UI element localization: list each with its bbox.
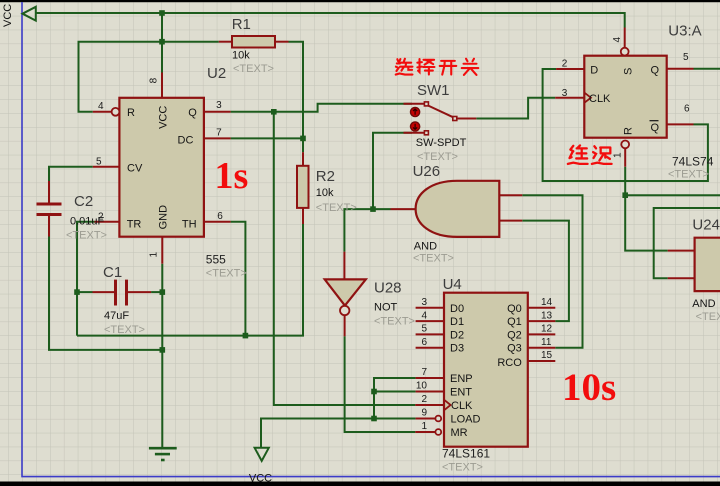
svg-text:CV: CV — [127, 163, 143, 175]
bottom black bar — [0, 482, 720, 486]
counter U4 74LS161 body — [444, 293, 528, 447]
U4 pin MR stub — [415, 431, 435, 433]
VCC power arrow top-left — [23, 7, 36, 21]
wire VCC rail drop to 555 pin8 — [161, 13, 163, 73]
wire switch bottom throw down to AND output node — [373, 133, 412, 209]
U3 CLK clock mark — [584, 93, 591, 103]
svg-text:13: 13 — [541, 310, 553, 321]
node AND output junction — [370, 206, 376, 212]
svg-text:3: 3 — [216, 100, 222, 111]
U3 R bubble — [621, 141, 629, 149]
svg-text:<TEXT>: <TEXT> — [316, 202, 357, 214]
U3 R stub — [624, 148, 626, 166]
svg-text:R2: R2 — [316, 168, 335, 185]
svg-text:5: 5 — [421, 324, 427, 335]
svg-text:D3: D3 — [450, 343, 464, 355]
U3 pin Q stub — [666, 68, 694, 70]
U24 lower input stub — [668, 277, 695, 279]
U26 lower input stub — [499, 220, 522, 222]
C1 right lead — [128, 291, 151, 293]
svg-text:U3:A: U3:A — [668, 23, 701, 40]
C2 top lead — [48, 181, 50, 203]
svg-text:SW-SPDT: SW-SPDT — [416, 137, 467, 149]
flip-flop U3:A 74LS74 body — [584, 56, 666, 138]
svg-text:Q: Q — [651, 65, 660, 77]
wire 555 TH down to TR node — [231, 222, 246, 336]
svg-text:5: 5 — [683, 52, 689, 63]
svg-text:2: 2 — [562, 59, 568, 70]
U4 pin Q2 stub — [528, 333, 556, 335]
wire R net out to right edge — [625, 194, 720, 196]
svg-text:Q1: Q1 — [507, 316, 522, 328]
annotation 延迟 (drawn strokes) — [568, 145, 612, 163]
U3 pin Qbar stub — [666, 123, 694, 125]
svg-text:<TEXT>: <TEXT> — [66, 230, 107, 242]
svg-text:3: 3 — [562, 88, 568, 99]
U4 pin ENT stub — [416, 391, 444, 393]
555 pin1 stub — [161, 237, 163, 264]
U4 pin CLK stub — [415, 404, 444, 406]
svg-text:U2: U2 — [207, 65, 226, 82]
555 pin4 inversion bubble — [112, 108, 120, 116]
svg-text:RCO: RCO — [497, 357, 522, 369]
wire 555 DC to R1/R2 node — [231, 137, 303, 139]
U3 S stub — [624, 28, 626, 48]
svg-text:1: 1 — [613, 152, 624, 158]
svg-text:<TEXT>: <TEXT> — [442, 462, 483, 474]
SW1 lower throw stub — [404, 132, 425, 134]
resistor R2 — [297, 166, 309, 208]
R1 right lead — [275, 41, 289, 43]
svg-text:C2: C2 — [74, 193, 93, 210]
U4 pin D1 stub — [416, 320, 444, 322]
node top rail junction — [159, 10, 165, 16]
svg-text:ENP: ENP — [450, 373, 473, 385]
svg-text:ENT: ENT — [450, 387, 472, 399]
svg-text:CLK: CLK — [589, 93, 611, 105]
svg-text:SW1: SW1 — [417, 82, 450, 99]
svg-text:2: 2 — [421, 394, 427, 405]
capacitor C1 — [116, 280, 127, 306]
R2 bottom lead — [302, 208, 304, 224]
svg-text:555: 555 — [206, 253, 226, 267]
R1 left lead — [219, 41, 232, 43]
wire 555 TR left and down to C1 — [77, 222, 95, 336]
annotation 选择开关 (drawn strokes) — [396, 59, 479, 75]
U4 CLK clock mark — [444, 400, 451, 411]
wire Q1 to U26 lower input — [522, 221, 569, 322]
wire R1 right to R2 top via junction — [289, 42, 304, 153]
svg-text:VCC: VCC — [158, 106, 170, 129]
svg-text:15: 15 — [541, 350, 553, 361]
svg-text:<TEXT>: <TEXT> — [374, 316, 415, 328]
node C2/ground junction — [160, 347, 166, 353]
svg-text:<TEXT>: <TEXT> — [413, 253, 454, 265]
U4 pin D3 stub — [416, 347, 444, 349]
U28 input stub — [343, 252, 345, 280]
555 pin5 stub — [93, 166, 120, 168]
wire C1 right stub — [151, 291, 162, 293]
svg-text:4: 4 — [612, 37, 623, 43]
wire U3 D to Q-bar feedback — [543, 69, 708, 181]
wire Q3 to U26 upper input — [522, 195, 582, 347]
svg-text:3: 3 — [421, 297, 427, 308]
U4 pin Q3 stub — [528, 347, 556, 349]
svg-text:C1: C1 — [103, 264, 122, 281]
svg-text:10k: 10k — [232, 50, 250, 62]
U28 output stub — [344, 316, 346, 337]
svg-text:7: 7 — [216, 128, 222, 139]
U4 pin ENP stub — [416, 377, 444, 379]
svg-text:8: 8 — [149, 77, 160, 83]
svg-text:Q0: Q0 — [507, 303, 522, 315]
svg-text:<TEXT>: <TEXT> — [696, 311, 720, 323]
wire U3 Q out to right edge — [694, 68, 720, 70]
svg-text:74LS161: 74LS161 — [442, 447, 490, 461]
switch SW1 actuator circles — [411, 107, 420, 116]
svg-text:10: 10 — [416, 381, 428, 392]
svg-text:Q2: Q2 — [507, 329, 522, 341]
capacitor C2 — [37, 204, 62, 215]
U3 S bubble — [621, 48, 629, 56]
svg-text:D2: D2 — [450, 329, 464, 341]
svg-text:6: 6 — [684, 104, 690, 115]
svg-text:14: 14 — [541, 297, 553, 308]
svg-text:MR: MR — [451, 427, 468, 439]
svg-text:TR: TR — [127, 219, 142, 231]
555 pin8 stub — [161, 73, 163, 98]
and-gate U24 (clipped at right edge) — [695, 238, 720, 291]
svg-text:S: S — [623, 68, 635, 75]
svg-text:6: 6 — [421, 337, 427, 348]
svg-text:1: 1 — [421, 421, 427, 432]
C1 left lead — [93, 291, 115, 293]
U4 MR bubble — [435, 429, 441, 435]
U3 pin D stub — [556, 68, 584, 70]
wire C2 bottom to ground net — [49, 237, 163, 350]
U26 output stub — [391, 208, 416, 210]
svg-text:9: 9 — [421, 408, 427, 419]
svg-text:D0: D0 — [450, 303, 464, 315]
wire U24 lower input out to right edge — [654, 208, 720, 278]
wire ENP/ENT/LOAD tie — [374, 378, 416, 419]
node TH junction — [243, 333, 249, 339]
VCC power arrow bottom (points down) — [255, 448, 269, 461]
SW1 pole stub — [457, 118, 477, 120]
node C1 left junction — [74, 289, 80, 295]
wire C1 left stub — [77, 291, 93, 293]
wire 555 CV to C2 — [49, 167, 93, 181]
svg-text:5: 5 — [96, 157, 102, 168]
node DC/R1/R2 junction — [300, 136, 306, 142]
svg-text:GND: GND — [158, 205, 170, 230]
node LOAD junction — [371, 416, 377, 422]
svg-text:VCC: VCC — [2, 4, 14, 27]
svg-text:11: 11 — [541, 337, 552, 348]
wire NOT output down to U4 MR — [345, 336, 416, 432]
node U3 R junction — [622, 192, 628, 198]
wire AND output to NOT input — [344, 209, 390, 252]
svg-text:<TEXT>: <TEXT> — [104, 324, 145, 336]
svg-text:D1: D1 — [450, 316, 464, 328]
node Q junction — [271, 109, 277, 115]
svg-text:4: 4 — [98, 101, 104, 112]
svg-text:Q3: Q3 — [507, 343, 522, 355]
U24 upper input stub — [668, 250, 695, 252]
ground — [149, 448, 177, 460]
svg-text:Q: Q — [651, 122, 660, 134]
svg-text:6: 6 — [217, 211, 223, 222]
555 pin7 stub — [204, 137, 231, 139]
svg-text:7: 7 — [421, 367, 427, 378]
svg-text:4: 4 — [421, 310, 427, 321]
svg-text:2: 2 — [98, 212, 104, 223]
node C1 right junction — [160, 289, 166, 295]
svg-text:10s: 10s — [562, 366, 616, 409]
U4 pin RCO stub — [528, 360, 556, 362]
switch SW1 terminal squares — [424, 102, 456, 135]
wire ENT stub — [374, 391, 416, 393]
op-amp U2 555 body — [119, 98, 203, 237]
U28 output bubble — [340, 306, 349, 315]
U3 pin CLK stub — [555, 97, 584, 99]
555 pin6 stub — [204, 221, 231, 223]
svg-text:LOAD: LOAD — [451, 414, 481, 426]
svg-text:AND: AND — [692, 298, 715, 310]
switch SW1 blade — [428, 106, 453, 118]
svg-text:TH: TH — [182, 219, 197, 231]
svg-text:1s: 1s — [215, 155, 249, 197]
svg-text:VCC: VCC — [249, 473, 272, 485]
svg-text:10k: 10k — [316, 187, 334, 199]
wire switch pole to U3 CLK — [476, 98, 555, 119]
svg-text:U26: U26 — [413, 163, 441, 180]
svg-text:CLK: CLK — [451, 400, 473, 412]
R2 top lead — [302, 152, 304, 166]
wire VCC top rail to U3 S pin — [36, 13, 625, 28]
svg-text:R1: R1 — [232, 16, 251, 33]
svg-text:D: D — [590, 65, 598, 77]
SW1 upper throw stub — [404, 103, 425, 105]
svg-text:74LS74: 74LS74 — [672, 155, 714, 169]
555 pin3 stub — [204, 111, 231, 113]
wire 555 GND down to ground — [161, 264, 163, 448]
node ENP/ENT junction — [371, 389, 377, 395]
node rail41 junction — [159, 39, 165, 45]
svg-text:<TEXT>: <TEXT> — [417, 151, 458, 163]
U4 LOAD bubble — [435, 416, 441, 422]
svg-text:R: R — [623, 127, 635, 135]
not-gate U28 (points down) — [325, 279, 366, 305]
and-gate U26 (mirrored, inputs right) — [416, 181, 500, 237]
svg-text:R: R — [127, 107, 135, 119]
svg-text:12: 12 — [541, 324, 553, 335]
U4 pin Q0 stub — [528, 307, 556, 309]
svg-text:U4: U4 — [443, 276, 462, 293]
C2 bottom lead — [48, 216, 50, 237]
wire U3 R net down and right off edge — [625, 167, 668, 251]
svg-text:U24: U24 — [692, 217, 720, 234]
svg-text:47uF: 47uF — [104, 310, 129, 322]
U4 pin Q1 stub — [528, 320, 556, 322]
svg-text:Q: Q — [188, 107, 197, 119]
svg-text:<TEXT>: <TEXT> — [206, 268, 247, 280]
top black bar — [0, 0, 720, 2]
U4 pin D2 stub — [416, 333, 444, 335]
svg-text:AND: AND — [414, 241, 437, 253]
svg-text:DC: DC — [178, 135, 194, 147]
svg-text:1: 1 — [149, 252, 160, 258]
555 pin2 stub — [95, 221, 120, 223]
U4 pin D0 stub — [416, 307, 444, 309]
resistor R1 — [232, 36, 275, 48]
wire 555 Q to switch top throw — [231, 104, 412, 112]
svg-text:<TEXT>: <TEXT> — [668, 169, 709, 181]
svg-text:<TEXT>: <TEXT> — [233, 63, 274, 75]
wire 555 Q down to U4 CLK — [274, 112, 416, 405]
wire TR node horizontal to R2 bottom — [77, 224, 303, 336]
U4 pin LOAD stub — [416, 418, 436, 420]
U26 upper input stub — [499, 194, 522, 196]
svg-text:NOT: NOT — [374, 302, 398, 314]
wire LOAD to VCC arrow — [261, 419, 416, 448]
555 pin4 stub — [93, 111, 112, 113]
wire R-pin rail y41.7 — [79, 42, 219, 112]
svg-text:U28: U28 — [374, 280, 402, 297]
